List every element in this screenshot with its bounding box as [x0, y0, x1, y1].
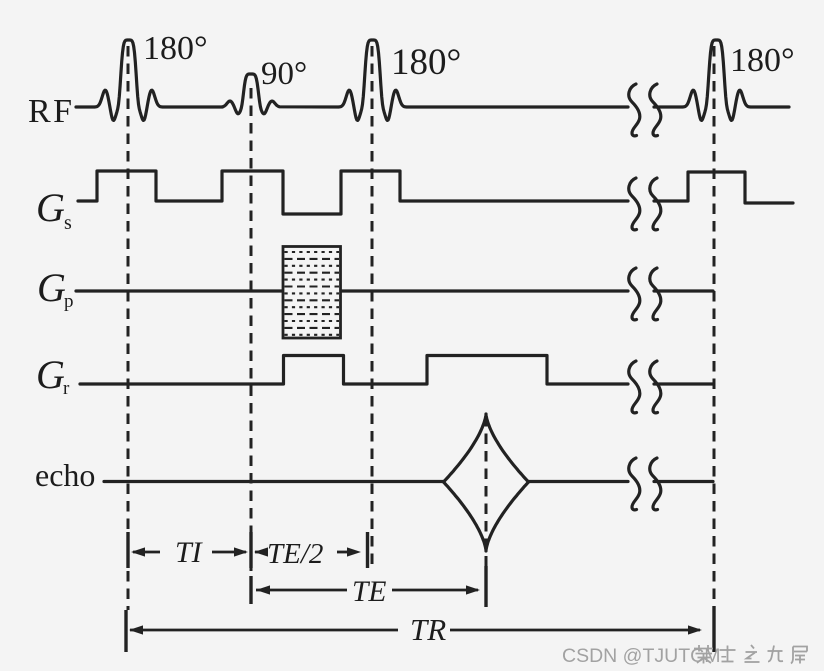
svg-text:TE: TE	[352, 576, 386, 608]
svg-text:180°: 180°	[730, 42, 795, 79]
svg-text:G: G	[36, 352, 65, 397]
svg-text:echo: echo	[35, 457, 95, 493]
svg-text:TR: TR	[410, 612, 446, 647]
svg-text:RF: RF	[28, 93, 75, 130]
svg-text:G: G	[37, 265, 66, 310]
svg-text:180°: 180°	[391, 42, 461, 83]
svg-text:90°: 90°	[261, 56, 307, 92]
svg-text:180°: 180°	[143, 30, 208, 67]
svg-text:r: r	[63, 378, 70, 399]
svg-text:TI: TI	[175, 536, 204, 569]
svg-text:s: s	[64, 212, 72, 234]
svg-text:p: p	[64, 291, 74, 312]
svg-text:TE/2: TE/2	[267, 538, 323, 570]
svg-text:G: G	[36, 185, 65, 230]
